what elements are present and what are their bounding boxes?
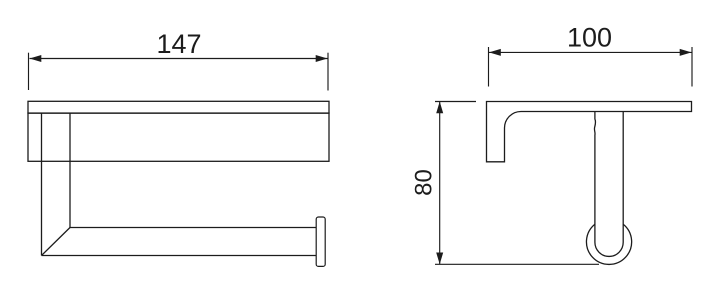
front view: end cap	[316, 217, 325, 266]
arrowhead right 100	[680, 49, 692, 56]
arrowhead left 100	[489, 49, 501, 56]
front view: roll bar bottom edge	[42, 255, 317, 257]
svg-text:100: 100	[567, 23, 612, 53]
front view: left post inner edge	[69, 113, 71, 227]
side view: L-shaped shelf profile with inner fillet	[487, 102, 692, 162]
extension line bottom 80	[435, 263, 599, 265]
dimension line 100	[489, 51, 692, 53]
svg-text:147: 147	[156, 29, 201, 59]
arrowhead bottom 80	[436, 253, 443, 265]
extension line top 80	[435, 101, 476, 103]
extension line left 100	[488, 47, 490, 87]
dimension line 80	[439, 102, 441, 265]
front view: roll bar top edge	[70, 227, 316, 229]
arrowhead left 147	[30, 55, 42, 62]
arrowhead top 80	[436, 102, 443, 114]
extension line left 147	[28, 53, 30, 90]
side view: hanging rod with rounded bottom (slight wiggle on left edge)	[594, 112, 623, 257]
front view: miter joint diagonal	[42, 228, 71, 256]
arrowhead right 147	[316, 55, 328, 62]
extension line right 100	[691, 47, 693, 87]
dimension line 147	[30, 58, 328, 60]
svg-text:80: 80	[411, 169, 438, 196]
front view: left post outer edge	[41, 113, 43, 255]
front view: shelf top bar	[28, 101, 329, 113]
side view: roll bar end cap circle (arc hidden behind rod at top)	[586, 224, 631, 264]
extension line right 147	[327, 53, 329, 91]
front view: wall plate	[28, 113, 329, 161]
